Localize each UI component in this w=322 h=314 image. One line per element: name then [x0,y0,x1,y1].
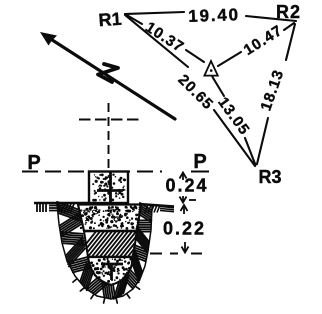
foundation pebbles [92,210,98,215]
ground surface line left [34,202,89,204]
ground surface line right [139,204,174,207]
bottom dashed reference line [150,253,178,255]
north arrow shaft [46,36,175,119]
monument bottom bowl [88,254,133,285]
wire line R1-station segment lower [186,50,204,62]
north arrow zigzag [98,64,118,82]
pillar centre bolt [97,172,123,202]
wire line R1-station segment upper [125,14,142,24]
svg-text:P: P [193,151,206,173]
band side edges [84,231,137,257]
svg-text:0.24: 0.24 [165,176,208,196]
svg-text:R3: R3 [258,167,281,187]
pit wall outer contour [57,204,152,299]
wire line R2-R3 segment upper [286,24,295,60]
pit wall fringe strokes [73,279,140,303]
ground hatch right [145,205,174,213]
pillar stipple concrete [92,174,126,202]
svg-text:R1: R1 [98,9,122,31]
svg-text:0.22: 0.22 [163,219,206,239]
wire line station-R3 segment lower [245,138,256,165]
dimension 0.22 lower arrow [182,242,189,253]
svg-text:R2: R2 [276,2,301,22]
bottom bolt [101,264,123,280]
wire line R1-R3 segment upper [125,15,188,67]
pit wall lining hatch [57,202,152,299]
wire line station-R2 segment left [218,52,241,66]
wire line R1-R2 segment right [246,16,296,21]
band bottom edge [87,256,134,259]
wire line station-R2 segment right [284,23,294,30]
monument foundation block below ground [78,205,141,232]
wire line R1-R3 segment lower [214,110,255,166]
dimension 0.24 upper arrow [180,173,187,181]
band top edge [83,230,138,233]
dimension 0.22 upper arrow [181,205,188,214]
wire line R1-R2 segment left [125,12,184,14]
ground hatch left [37,204,74,213]
P reference dashed line [22,171,162,173]
monument pillar above ground [89,172,128,204]
north arrow head [40,32,57,46]
svg-text:19.40: 19.40 [188,5,240,26]
P right underline [191,171,209,173]
hatched band layer [74,229,170,259]
centerline horizontal dashed [79,119,139,121]
dimension 0.24 lower arrow [180,196,197,203]
centerline vertical dashed [108,103,110,171]
wire line station-R3 segment upper [213,77,225,96]
wire line R2-R3 segment lower [257,118,268,164]
station triangle symbol [204,61,217,76]
